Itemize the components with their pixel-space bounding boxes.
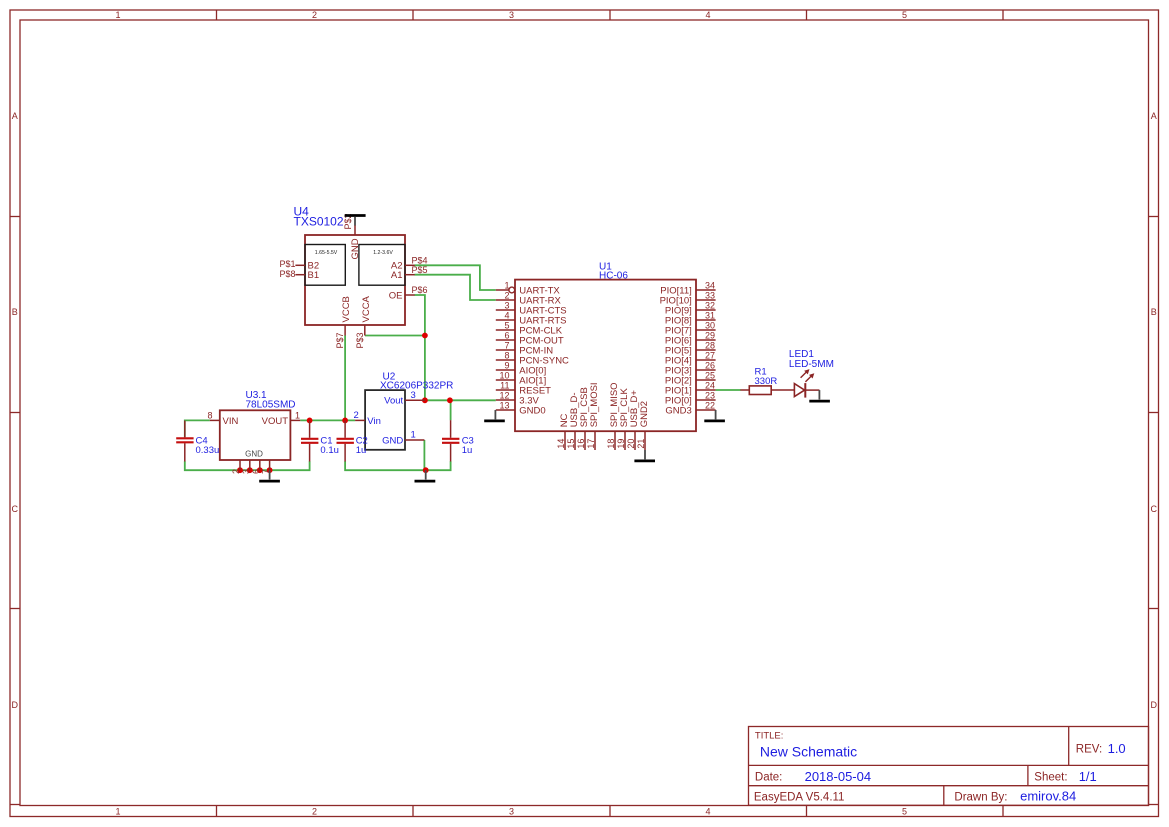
svg-text:2: 2 [504,291,509,301]
svg-text:25: 25 [705,371,715,381]
svg-text:1/1: 1/1 [1079,769,1097,784]
svg-text:GND2: GND2 [639,401,650,427]
svg-text:32: 32 [705,301,715,311]
wire U2 GND drop [423,440,425,470]
svg-text:TITLE:: TITLE: [755,731,784,742]
svg-text:B1: B1 [308,270,320,281]
U1 pin 22 GND3 [696,409,716,411]
svg-text:31: 31 [705,311,715,321]
U1 pin 11 RESET [496,389,515,391]
svg-text:GND0: GND0 [519,405,545,416]
svg-text:3: 3 [411,390,416,401]
wire ground rail left (C4/U3.1/C1) [185,461,310,470]
svg-text:GND: GND [245,449,263,458]
U3.1 pin 7 GND [269,460,271,470]
wire A1 to U1 UART-RX [415,275,496,300]
junction U3.1 pin3 on ground rail [247,467,253,473]
svg-text:7: 7 [504,341,509,351]
ground at U4 top [345,216,366,226]
U4 pin P$6 OE [405,294,415,296]
svg-text:1.0: 1.0 [1108,741,1126,756]
U4 pin P$3 VCCA [364,325,366,336]
U1 pin 30 PIO[7] [696,329,716,331]
svg-text:A1: A1 [391,270,403,281]
junction U2 GND on ground rail [423,467,429,473]
svg-text:16: 16 [576,439,586,449]
U1 pin 2 UART-RX [496,299,515,301]
svg-text:9: 9 [504,361,509,371]
U1 pin 23 PIO[0] [696,399,716,401]
svg-text:6: 6 [504,331,509,341]
svg-text:emirov.84: emirov.84 [1020,789,1076,804]
svg-text:D: D [1150,700,1157,710]
svg-text:GND3: GND3 [665,405,691,416]
svg-text:SPI_MOSI: SPI_MOSI [589,382,600,427]
svg-text:17: 17 [586,439,596,449]
wire C4 to U3.1 VIN [185,420,210,437]
svg-text:REV:: REV: [1076,744,1102,756]
U1 pin 8 PCN-SYNC [496,359,515,361]
ground at U2 [425,470,427,479]
svg-text:B: B [12,307,18,317]
svg-text:Vout: Vout [384,396,403,407]
svg-text:23: 23 [705,391,715,401]
svg-text:GND: GND [382,435,403,446]
svg-text:3: 3 [509,10,514,20]
svg-text:3: 3 [241,469,251,474]
svg-text:4: 4 [504,311,509,321]
junction U3.1 pin6 on ground rail [257,467,263,473]
svg-text:1: 1 [504,281,509,291]
wire Vout rail to U1 3.3V [425,399,496,401]
svg-text:C: C [1150,504,1157,514]
svg-text:3: 3 [504,301,509,311]
svg-text:B: B [1151,307,1157,317]
svg-text:P$4: P$4 [412,256,428,266]
svg-text:VOUT: VOUT [262,416,289,427]
U1 pin 10 AIO[1] [496,379,515,381]
wire A2 to U1 UART-TX [415,265,496,290]
junction C3 top on 3.3V rail [447,397,453,403]
svg-text:18: 18 [606,439,616,449]
svg-text:D: D [12,700,19,710]
svg-text:21: 21 [636,439,646,449]
bluetooth module U1 HC-06 [484,262,725,461]
U4 pin P$7 VCCB [344,325,346,336]
wire OE stub to vertical [415,295,425,400]
led LED1 LED-5MM [789,349,834,401]
svg-text:20: 20 [626,439,636,449]
svg-text:2: 2 [231,469,241,474]
svg-text:Date:: Date: [755,772,783,784]
U4 pin P$8 B1 [295,274,305,276]
ground at U3.1 [269,470,271,479]
U1 pin 24 PIO[1] [696,389,716,391]
svg-text:5: 5 [504,321,509,331]
svg-text:P$8: P$8 [279,269,295,279]
svg-text:11: 11 [500,381,509,391]
title block [749,727,1149,806]
junction U2 Vout node [422,397,428,403]
svg-text:Drawn By:: Drawn By: [954,792,1007,804]
svg-text:P$5: P$5 [412,265,428,275]
U1 pin 21 GND2 [644,431,646,450]
svg-text:28: 28 [705,341,715,351]
capacitor C1 0.1u [301,421,339,462]
U3.1 pin 8 VIN [210,419,220,421]
svg-text:OE: OE [389,290,403,301]
U1 pin 26 PIO[3] [696,369,716,371]
svg-text:Vin: Vin [367,416,381,427]
svg-text:10: 10 [499,371,509,381]
svg-text:2: 2 [312,10,317,20]
svg-text:30: 30 [705,321,715,331]
svg-text:1: 1 [115,10,120,20]
U3.1 pin 3 GND [249,460,251,470]
U1 pin 29 PIO[6] [696,339,716,341]
junction C1 top on 5V rail [307,418,313,424]
U1 pin 28 PIO[5] [696,349,716,351]
svg-text:2: 2 [354,410,359,421]
U1 pin 17 SPI_MOSI [594,431,596,450]
U1 pin 34 PIO[11] [696,289,716,291]
wire U1 PIO[1] to R1 [716,389,741,391]
svg-text:A: A [1151,111,1157,121]
U1 pin 19 SPI_CLK [624,431,626,450]
U1 pin 16 SPI_CSB [584,431,586,450]
svg-text:12: 12 [499,391,509,401]
svg-text:14: 14 [556,439,566,449]
regulator U2 XC6206P332PR [354,372,454,482]
svg-text:1: 1 [295,411,300,421]
junction U3.1 pin7 on ground rail [267,467,273,473]
svg-text:EasyEDA V5.4.11: EasyEDA V5.4.11 [754,792,845,804]
svg-text:27: 27 [705,351,715,361]
U1 pin 12 3.3V [496,399,515,401]
wire VCCB vertical to Vin rail [344,336,346,421]
svg-text:1.2-3.6V: 1.2-3.6V [373,250,393,256]
svg-text:P$6: P$6 [412,285,428,295]
capacitor C2 1u [337,421,368,462]
U1 pin 6 PCM-OUT [496,339,515,341]
svg-text:Sheet:: Sheet: [1034,772,1067,784]
wire ground rail right (C2/U2/C3) [345,461,451,470]
svg-text:1: 1 [411,430,416,441]
svg-text:C: C [12,504,19,514]
U1 pin 33 PIO[10] [696,299,716,301]
svg-text:LED-5MM: LED-5MM [789,359,834,370]
resistor R1 330R [740,367,794,395]
svg-text:4: 4 [705,807,710,817]
svg-text:1u: 1u [356,445,367,456]
junction VCCA/OE node [422,333,428,339]
svg-text:P$3: P$3 [355,332,365,348]
svg-text:New Schematic: New Schematic [760,743,857,759]
U2 pin 1 GND [405,439,424,441]
svg-text:1: 1 [115,807,120,817]
svg-text:VCCB: VCCB [341,296,352,322]
U1 pin 32 PIO[9] [696,309,716,311]
svg-text:1u: 1u [462,445,473,456]
junction U3.1 pin2 on ground rail [237,467,243,473]
U1 pin 4 UART-RTS [496,319,515,321]
svg-text:P$1: P$1 [279,259,295,269]
U1 pin 9 AIO[0] [496,369,515,371]
U1 pin 5 PCM-CLK [496,329,515,331]
wire U3.1 VOUT to U2 Vin (3.3V-in rail) [300,419,355,421]
capacitor C4 0.33u [176,421,219,462]
ground at U1 pin 21 GND2 [644,450,646,459]
U3.1 pin 2 GND [239,460,241,470]
svg-text:26: 26 [705,361,715,371]
LED1 arrows [801,369,815,382]
svg-text:0.33u: 0.33u [196,445,220,456]
svg-text:VIN: VIN [223,416,239,427]
svg-text:78L05SMD: 78L05SMD [246,400,296,411]
junction C2/VCCB on 5V rail [342,418,348,424]
ground at U1 pin 22 GND3 [715,410,717,419]
svg-text:VCCA: VCCA [361,295,372,322]
U1 pin 20 USB_D+ [634,431,636,450]
U1 pin 3 UART-CTS [496,309,515,311]
svg-text:8: 8 [207,411,212,421]
svg-text:4: 4 [705,10,710,20]
U2 pin 2 Vin [355,419,365,421]
wire VCCA horizontal [365,335,425,337]
svg-text:24: 24 [705,381,715,391]
svg-text:2018-05-04: 2018-05-04 [805,769,872,784]
svg-text:33: 33 [705,291,715,301]
svg-text:22: 22 [705,401,715,411]
U1 pin 14 NC [564,431,566,450]
U1 pin 15 USB_D- [574,431,576,450]
svg-text:6: 6 [251,469,261,474]
svg-text:5: 5 [902,807,907,817]
capacitor C3 1u [442,420,474,461]
svg-text:29: 29 [705,331,715,341]
U4 pin P$1 B2 [295,264,305,266]
U2 pin 3 Vout [405,399,425,401]
ground at LED1 [818,390,820,399]
U1 pin 27 PIO[4] [696,359,716,361]
svg-text:19: 19 [616,439,626,449]
svg-text:34: 34 [705,281,715,291]
svg-text:15: 15 [566,439,576,449]
U1 pin 31 PIO[8] [696,319,716,321]
level shifter U4 TXS0102 [279,205,427,349]
U4 pin P$2 GND top [354,225,356,235]
U4 pin P$4 A2 [405,264,415,266]
svg-text:0.1u: 0.1u [320,445,339,456]
U3.1 pin 1 VOUT [290,419,300,421]
svg-text:TXS0102: TXS0102 [294,215,344,229]
U1 pin 13 GND0 [496,409,515,411]
U1 pin 1 UART-TX [496,289,509,291]
U1 pin 18 SPI_MISO [614,431,616,450]
wire C3 top drop [450,400,452,420]
svg-text:3: 3 [509,807,514,817]
U1 pin 25 PIO[2] [696,379,716,381]
svg-text:P$7: P$7 [335,332,345,348]
U3.1 pin 6 GND [259,460,261,470]
svg-text:1.65-5.5V: 1.65-5.5V [315,250,338,256]
svg-text:GND: GND [350,238,361,259]
svg-text:5: 5 [902,10,907,20]
U1 pin 7 PCM-IN [496,349,515,351]
svg-text:13: 13 [499,401,509,411]
regulator U3.1 78L05SMD [207,390,300,481]
svg-text:2: 2 [312,807,317,817]
svg-text:A: A [12,111,18,121]
U4 pin P$5 A1 [405,274,415,276]
ground at U1 pin 13 GND0 [494,410,496,419]
svg-text:8: 8 [504,351,509,361]
